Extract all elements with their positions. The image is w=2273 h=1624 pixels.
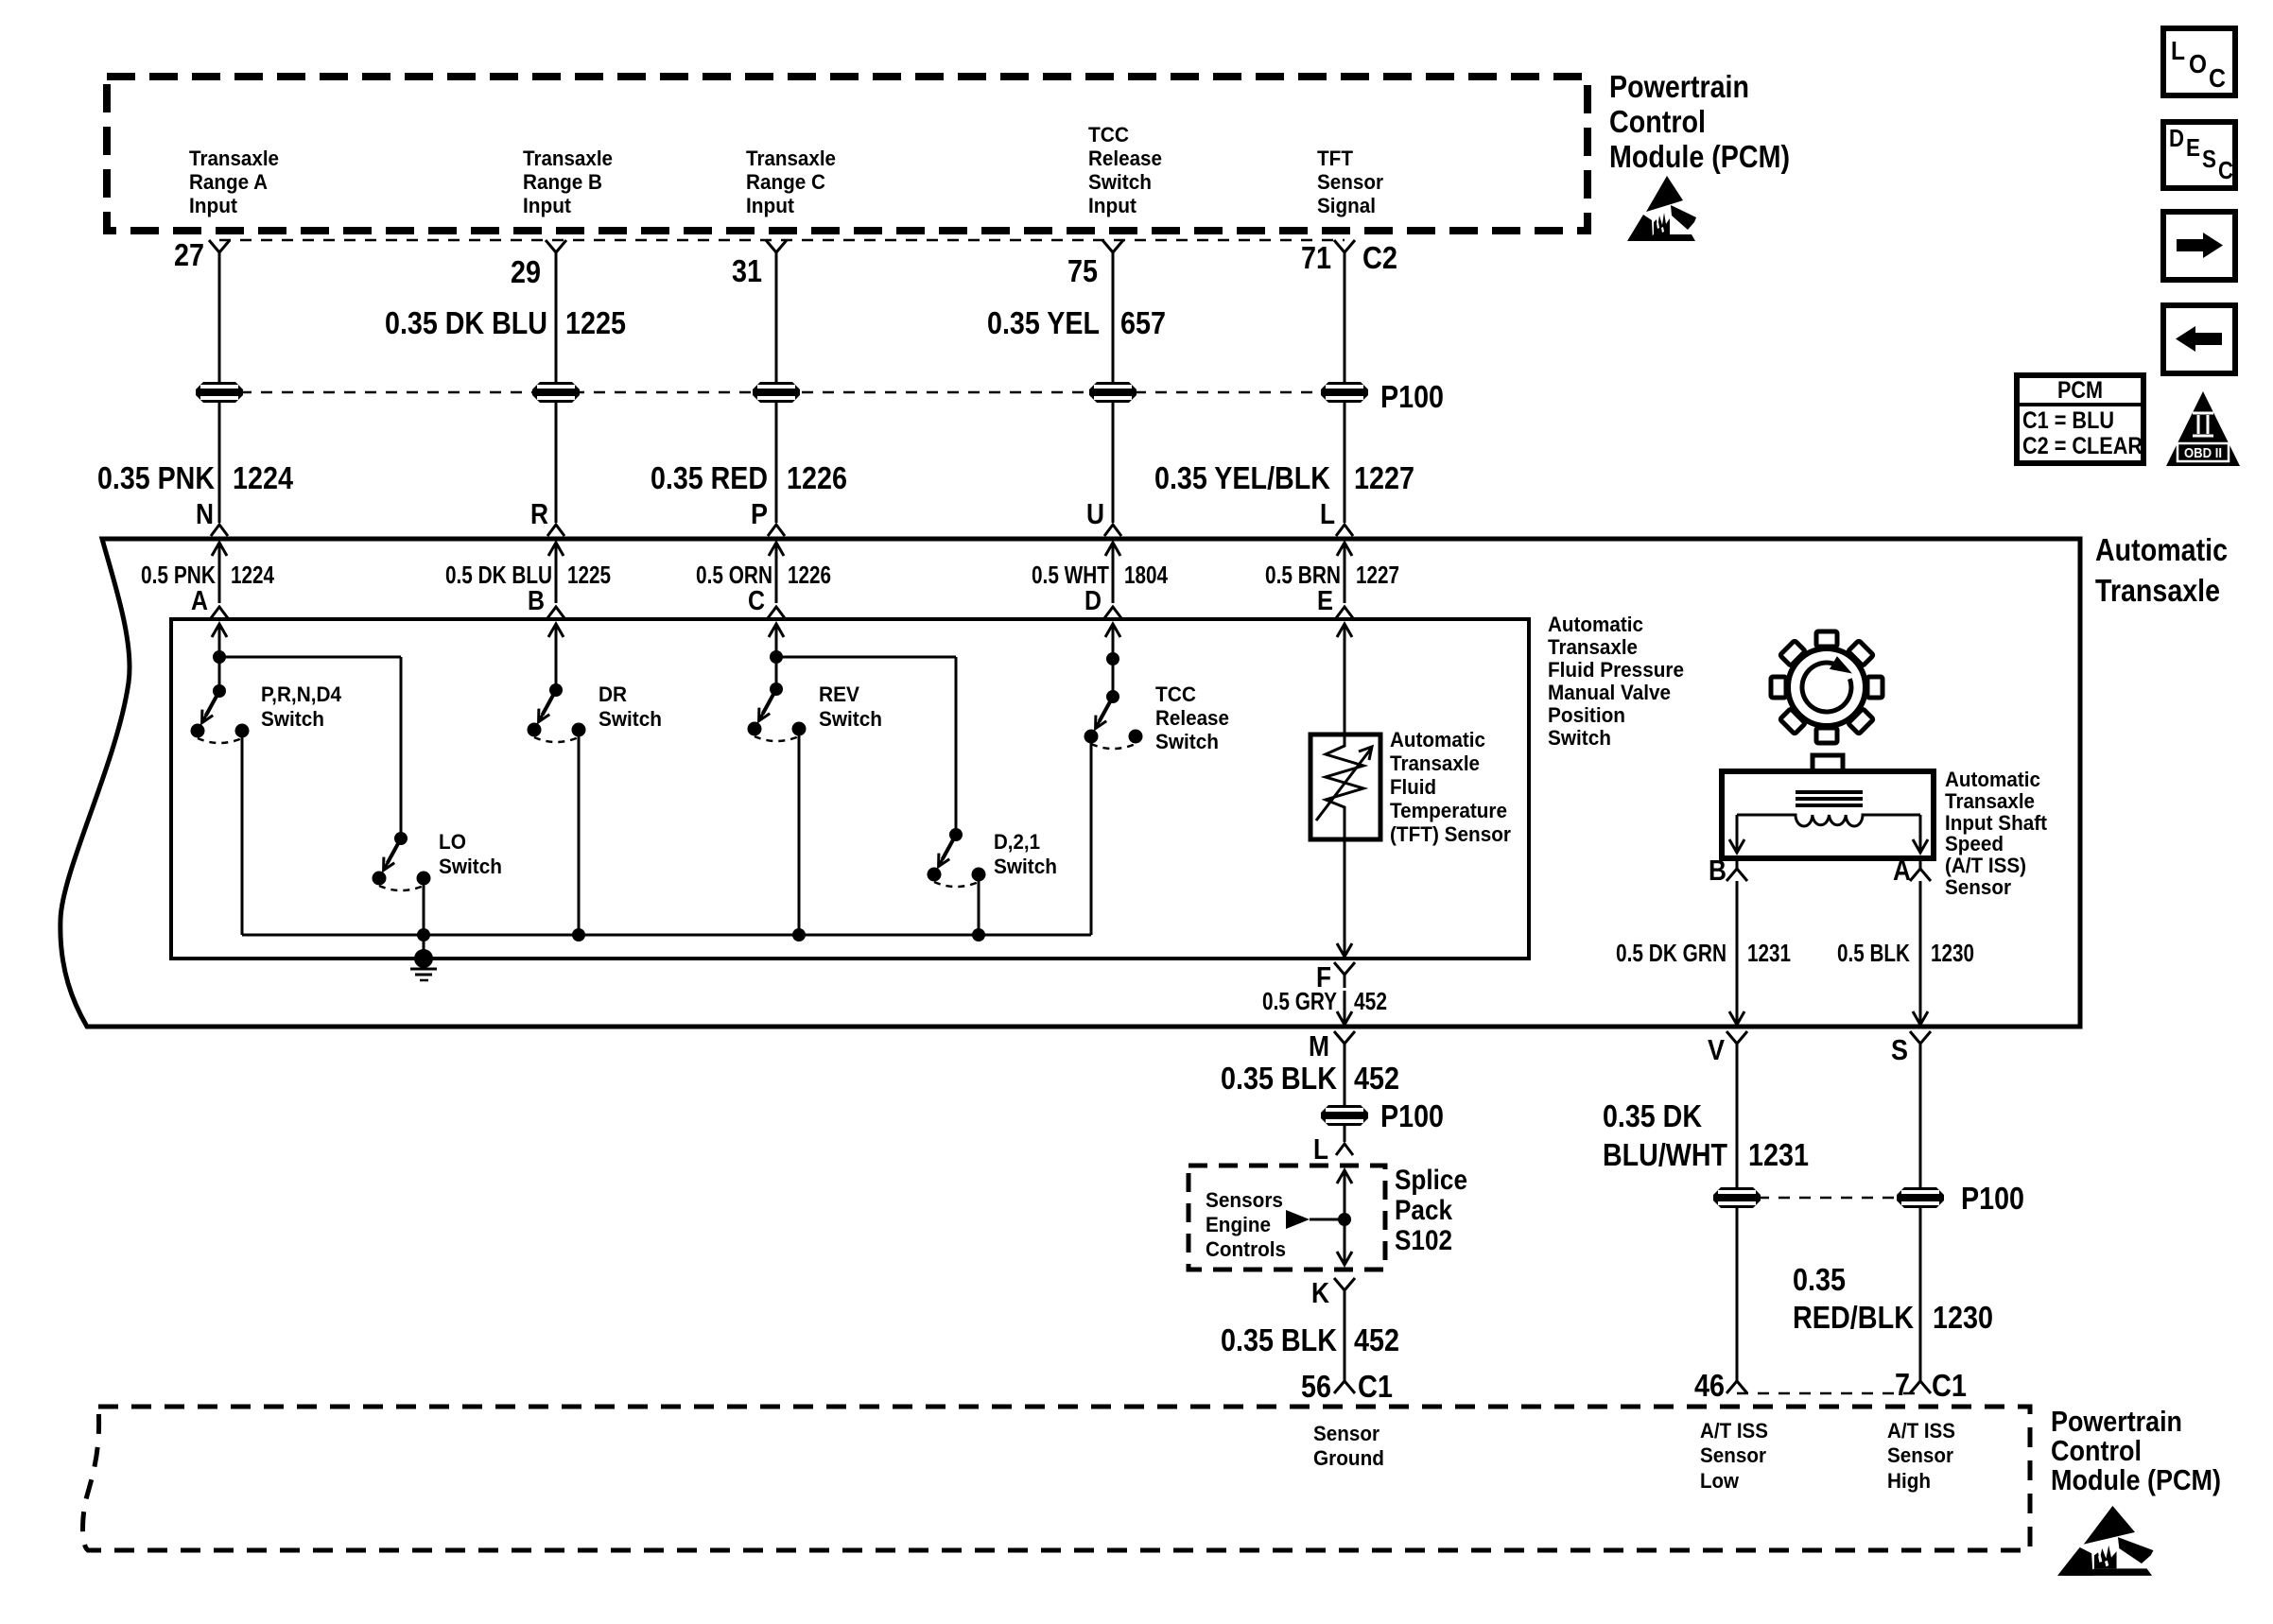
terminal letter N — [196, 497, 214, 530]
svg-text:A/T ISS: A/T ISS — [1700, 1419, 1768, 1443]
switch TCC Release — [1084, 682, 1230, 753]
svg-text:Transaxle: Transaxle — [1945, 789, 2035, 813]
wire A arrow into switch box — [212, 624, 227, 657]
svg-text:0.35 DK BLU: 0.35 DK BLU — [385, 305, 547, 340]
svg-text:P,R,N,D4: P,R,N,D4 — [261, 682, 342, 706]
svg-text:Splice: Splice — [1395, 1165, 1467, 1196]
terminal B caret at switch box — [547, 607, 564, 618]
svg-text:Module (PCM): Module (PCM) — [1609, 139, 1790, 174]
svg-text:TCC: TCC — [1088, 123, 1129, 147]
junction dot DR/bus — [572, 928, 585, 942]
pin fork at PCM pin 71 — [1334, 240, 1355, 266]
svg-text:Sensor: Sensor — [1700, 1443, 1766, 1467]
wire V from P100 fork — [1736, 1044, 1739, 1187]
connector P100 dashed link (V-S) — [1737, 1197, 1920, 1200]
wire TCC output down — [1090, 736, 1093, 935]
pin number 56 — [1301, 1369, 1331, 1404]
connector C1 dashed pin line (bottom) — [1737, 1392, 1920, 1395]
svg-text:D: D — [2169, 124, 2184, 152]
junction dot on wire D — [1106, 652, 1119, 665]
connector label P100 (top) — [1380, 379, 1444, 414]
svg-text:Sensor: Sensor — [1945, 875, 2011, 899]
label Sensor Ground — [1313, 1422, 1384, 1470]
wire B arrow into switch box — [548, 624, 564, 690]
svg-text:Sensor: Sensor — [1887, 1443, 1953, 1467]
svg-text:0.5 PNK: 0.5 PNK — [141, 561, 216, 589]
svg-text:0.35 RED: 0.35 RED — [651, 460, 768, 495]
wire C arrow into switch box — [769, 624, 784, 657]
A/T ISS sensor tab — [1813, 755, 1843, 771]
A/T ISS sensor body — [1722, 771, 1934, 858]
svg-text:1230: 1230 — [1931, 939, 1974, 967]
pin fork at PCM pin 31 — [766, 240, 787, 266]
wire C from PCM to P100 — [775, 266, 778, 382]
wire D entering transaxle (arrow) — [1105, 543, 1120, 603]
svg-text:C1: C1 — [1358, 1369, 1393, 1404]
svg-text:Release: Release — [1088, 147, 1162, 170]
DESC reference box — [2163, 122, 2235, 188]
wire V to PCM — [1736, 1208, 1739, 1369]
wire DR output — [578, 730, 581, 935]
svg-text:L: L — [1320, 497, 1335, 530]
splice pack S102 dashed box — [1189, 1166, 1385, 1270]
wire B from P100 to transaxle — [555, 403, 558, 523]
wire label 0.5 ORN 1226 — [696, 561, 831, 589]
switch P,R,N,D4 — [191, 682, 342, 743]
label A/T ISS Sensor Low — [1700, 1419, 1768, 1493]
wire label 0.35 BLK 452 (upper) — [1221, 1061, 1399, 1096]
svg-text:Temperature: Temperature — [1390, 799, 1507, 822]
label Splice Pack S102 — [1395, 1165, 1467, 1256]
wire label 0.35 BLK 452 (lower) — [1221, 1322, 1399, 1357]
terminal letter L — [1320, 497, 1335, 530]
terminal F fork — [1334, 962, 1355, 988]
svg-text:OBD II: OBD II — [2184, 445, 2222, 461]
label TFT Sensor Signal — [1317, 147, 1383, 217]
svg-text:Module (PCM): Module (PCM) — [2051, 1463, 2221, 1496]
TFT thermistor element — [1316, 734, 1372, 839]
svg-text:Transaxle: Transaxle — [1390, 752, 1480, 775]
svg-text:Automatic: Automatic — [1945, 768, 2040, 791]
label Transaxle Range A Input — [189, 147, 279, 217]
svg-text:56: 56 — [1301, 1369, 1331, 1404]
terminal letter A (ISS) — [1893, 854, 1911, 887]
connector P100 pass-through on wire E — [1321, 382, 1368, 403]
wire label 0.35 RED 1226 — [651, 460, 847, 495]
svg-text:1231: 1231 — [1748, 1137, 1809, 1172]
pin number 27 — [174, 237, 204, 272]
svg-text:1227: 1227 — [1356, 561, 1399, 589]
svg-text:D,2,1: D,2,1 — [994, 830, 1040, 854]
terminal K fork — [1334, 1278, 1355, 1304]
svg-text:Input: Input — [1088, 194, 1137, 217]
svg-text:Pack: Pack — [1395, 1195, 1452, 1226]
svg-text:Position: Position — [1548, 703, 1625, 727]
A/T ISS lead B — [1729, 815, 1744, 853]
wire D arrow into switch box — [1105, 624, 1120, 659]
ESD static-sensitive icon (top PCM) — [1627, 176, 1696, 241]
wire label 0.35 YEL 657 — [987, 305, 1166, 340]
PCM connector legend table — [2017, 375, 2143, 463]
svg-text:C1 = BLU: C1 = BLU — [2022, 407, 2114, 434]
junction dot branch C — [770, 650, 783, 664]
connector label C1 (56) — [1358, 1369, 1393, 1404]
svg-text:C: C — [2209, 63, 2226, 93]
svg-text:C: C — [748, 586, 765, 616]
svg-text:Manual Valve: Manual Valve — [1548, 681, 1671, 704]
svg-text:Ground: Ground — [1313, 1446, 1384, 1470]
terminal A caret at switch box — [211, 607, 228, 618]
svg-text:REV: REV — [819, 682, 859, 706]
label Automatic Transaxle Fluid Pressure Manual Valve Position Switch — [1548, 613, 1684, 750]
svg-text:BLU/WHT: BLU/WHT — [1603, 1137, 1727, 1172]
svg-text:S: S — [1891, 1033, 1908, 1066]
label Powertrain Control Module (PCM) top — [1609, 69, 1790, 174]
wire label 0.5 BLK 1230 — [1837, 939, 1974, 967]
svg-text:Automatic: Automatic — [1390, 728, 1485, 752]
wire D from PCM to P100 — [1112, 266, 1115, 382]
svg-text:P100: P100 — [1380, 379, 1444, 414]
terminal fork A — [1910, 855, 1931, 881]
connector label P100 (right) — [1961, 1181, 2024, 1216]
terminal letter D — [1084, 586, 1102, 616]
terminal letter K — [1311, 1276, 1330, 1309]
svg-text:S102: S102 — [1395, 1225, 1452, 1256]
svg-text:Speed: Speed — [1945, 832, 2004, 855]
svg-text:E: E — [1317, 586, 1333, 616]
label Sensors Engine Controls — [1206, 1188, 1286, 1261]
terminal E caret at switch box — [1336, 607, 1353, 618]
svg-text:452: 452 — [1354, 1061, 1399, 1096]
wire A from PCM to P100 — [218, 266, 221, 382]
svg-text:0.5 GRY: 0.5 GRY — [1262, 987, 1337, 1015]
terminal L caret at splice — [1336, 1144, 1353, 1155]
connector P100 on wire S — [1897, 1187, 1944, 1208]
connector P100 dashed link line — [219, 391, 1345, 394]
wire label 0.5 PNK 1224 — [141, 561, 274, 589]
svg-text:P100: P100 — [1380, 1098, 1444, 1133]
svg-text:0.5 WHT: 0.5 WHT — [1032, 561, 1109, 589]
svg-text:Low: Low — [1700, 1469, 1740, 1493]
wire D from P100 to transaxle — [1112, 403, 1115, 523]
svg-text:Transaxle: Transaxle — [523, 147, 613, 170]
terminal letter U — [1086, 497, 1104, 530]
svg-text:0.5 BLK: 0.5 BLK — [1837, 939, 1910, 967]
svg-text:E: E — [2186, 133, 2200, 162]
Automatic Transaxle enclosure box — [61, 539, 2080, 1027]
junction dot LO/bus — [417, 928, 430, 942]
terminal caret at transaxle case — [1104, 525, 1121, 536]
svg-text:Powertrain: Powertrain — [2051, 1405, 2182, 1438]
wire D to TCC pivot — [1112, 659, 1115, 697]
svg-text:(A/T ISS): (A/T ISS) — [1945, 854, 2026, 877]
svg-text:1227: 1227 — [1354, 460, 1414, 495]
wire L from P100 — [1344, 1126, 1346, 1142]
svg-text:27: 27 — [174, 237, 204, 272]
connector P100 on sensor ground wire — [1321, 1105, 1368, 1126]
terminal letter F — [1316, 960, 1331, 993]
svg-text:452: 452 — [1354, 1322, 1399, 1357]
svg-text:Range A: Range A — [189, 170, 268, 194]
svg-text:Switch: Switch — [819, 707, 882, 731]
svg-text:D: D — [1084, 586, 1102, 616]
terminal C caret at switch box — [768, 607, 785, 618]
svg-text:High: High — [1887, 1469, 1931, 1493]
connector label C1 (7) — [1932, 1368, 1967, 1403]
wire C from P100 to transaxle — [775, 403, 778, 523]
svg-text:Sensor: Sensor — [1317, 170, 1383, 194]
wire S from P100 fork — [1919, 1044, 1922, 1187]
wire label 0.5 GRY 452 — [1262, 987, 1387, 1015]
svg-text:1224: 1224 — [231, 561, 274, 589]
wire A to transaxle case — [1913, 881, 1928, 1025]
svg-text:L: L — [1313, 1132, 1328, 1166]
svg-text:Input: Input — [189, 194, 238, 217]
svg-text:75: 75 — [1067, 253, 1098, 288]
svg-text:Control: Control — [2051, 1434, 2142, 1467]
svg-text:0.5 DK BLU: 0.5 DK BLU — [445, 561, 552, 589]
wire label 0.35 DK BLU 1225 — [385, 305, 626, 340]
label Automatic Transaxle (title) — [2095, 532, 2228, 608]
svg-text:DR: DR — [599, 682, 627, 706]
PCM module box (bottom, dashed) — [83, 1407, 2030, 1550]
label Transaxle Range C Input — [746, 147, 836, 217]
wire A from P100 to transaxle — [218, 403, 221, 523]
svg-text:TFT: TFT — [1317, 147, 1354, 170]
svg-text:1226: 1226 — [787, 460, 847, 495]
svg-text:B: B — [1709, 854, 1726, 887]
svg-text:0.35 YEL/BLK: 0.35 YEL/BLK — [1154, 460, 1330, 495]
terminal S fork — [1910, 1031, 1931, 1057]
terminal letter L (splice) — [1313, 1132, 1328, 1166]
PCM module box (top, dashed) — [107, 77, 1588, 231]
svg-text:Switch: Switch — [599, 707, 662, 731]
svg-text:M: M — [1309, 1029, 1329, 1063]
connector P100 pass-through on wire D — [1089, 382, 1136, 403]
terminal letter B (ISS) — [1709, 854, 1726, 887]
svg-text:Transaxle: Transaxle — [2095, 573, 2220, 608]
wire LO output to ground bus — [423, 878, 425, 935]
wire label 0.35 PNK 1224 — [97, 460, 294, 495]
pin number 46 — [1694, 1368, 1725, 1403]
svg-text:Fluid: Fluid — [1390, 775, 1436, 799]
svg-text:Transaxle: Transaxle — [746, 147, 836, 170]
svg-text:29: 29 — [511, 254, 541, 289]
svg-text:31: 31 — [732, 253, 762, 288]
svg-text:Transaxle: Transaxle — [189, 147, 279, 170]
terminal fork pin 56 — [1334, 1368, 1355, 1393]
terminal caret at transaxle case — [1336, 525, 1353, 536]
gear icon (input shaft) — [1771, 631, 1883, 743]
terminal caret at transaxle case — [211, 525, 228, 536]
svg-text:46: 46 — [1694, 1368, 1725, 1403]
svg-text:L: L — [2171, 36, 2185, 65]
svg-text:1226: 1226 — [788, 561, 831, 589]
svg-text:1225: 1225 — [565, 305, 626, 340]
svg-text:452: 452 — [1354, 987, 1387, 1015]
terminal D caret at switch box — [1104, 607, 1121, 618]
terminal letter R — [530, 497, 548, 530]
connector P100 pass-through on wire B — [532, 382, 580, 403]
svg-text:Switch: Switch — [439, 855, 502, 878]
label A/T ISS Sensor High — [1887, 1419, 1955, 1493]
svg-text:PCM: PCM — [2057, 377, 2103, 404]
svg-text:C2: C2 — [1362, 240, 1397, 275]
TFT sensor box — [1310, 734, 1380, 839]
wire E to switch box bottom — [1337, 839, 1352, 957]
terminal caret at transaxle case — [547, 525, 564, 536]
svg-text:0.35 BLK: 0.35 BLK — [1221, 1061, 1337, 1096]
wire label 0.35 RED/BLK 1230 — [1793, 1262, 1993, 1335]
forward arrow box — [2163, 212, 2235, 280]
terminal caret at transaxle case — [768, 525, 785, 536]
wire B entering transaxle (arrow) — [548, 543, 564, 603]
svg-text:TCC: TCC — [1155, 682, 1196, 706]
wire A entering transaxle (arrow) — [212, 543, 227, 603]
wire E inside switch box — [1337, 624, 1352, 734]
svg-text:Sensor: Sensor — [1313, 1422, 1379, 1445]
terminal fork pin 46 — [1726, 1368, 1747, 1393]
svg-text:0.35 PNK: 0.35 PNK — [97, 460, 215, 495]
svg-text:1230: 1230 — [1933, 1300, 1993, 1335]
switch REV — [748, 682, 883, 741]
terminal letter B — [528, 586, 545, 616]
svg-text:1224: 1224 — [233, 460, 294, 495]
svg-text:Signal: Signal — [1317, 194, 1376, 217]
terminal letter C — [748, 586, 765, 616]
terminal fork pin 7 — [1910, 1368, 1931, 1393]
svg-text:(TFT) Sensor: (TFT) Sensor — [1390, 822, 1511, 846]
svg-text:A: A — [191, 586, 208, 616]
svg-text:N: N — [196, 497, 214, 530]
svg-text:Release: Release — [1155, 706, 1229, 730]
wire label 0.35 YEL/BLK 1227 — [1154, 460, 1414, 495]
A/T ISS pickup coil — [1737, 815, 1920, 826]
svg-text:LO: LO — [439, 830, 466, 854]
splice junction dot S102 — [1338, 1213, 1351, 1226]
wire E from P100 to transaxle — [1344, 403, 1346, 523]
wire P,R,N,D4 output — [241, 731, 244, 935]
svg-text:Switch: Switch — [261, 707, 324, 731]
svg-text:Automatic: Automatic — [2095, 532, 2228, 567]
terminal letter P — [751, 497, 768, 530]
wire E from PCM to P100 — [1344, 266, 1346, 382]
ground symbol G101 — [410, 949, 437, 980]
wire S to PCM — [1919, 1208, 1922, 1369]
svg-text:R: R — [530, 497, 548, 530]
label TCC Release Switch Input — [1088, 123, 1162, 217]
svg-text:Switch: Switch — [1548, 726, 1611, 750]
pin number 31 — [732, 253, 762, 288]
svg-text:Input: Input — [523, 194, 572, 217]
terminal letter M — [1309, 1029, 1329, 1063]
wire label 0.5 WHT 1804 — [1032, 561, 1168, 589]
connector P100 pass-through on wire A — [196, 382, 243, 403]
svg-text:0.5 ORN: 0.5 ORN — [696, 561, 772, 589]
back arrow box — [2163, 305, 2235, 373]
pin number 71 — [1301, 240, 1331, 275]
LOC reference box — [2163, 28, 2235, 95]
wire E entering transaxle (arrow) — [1337, 543, 1352, 603]
svg-text:0.35 DK: 0.35 DK — [1603, 1098, 1702, 1133]
wire branch C to D,2,1 switch — [776, 657, 956, 835]
svg-text:0.5 DK GRN: 0.5 DK GRN — [1616, 939, 1726, 967]
wire D,2,1 output — [978, 874, 980, 935]
ESD static-sensitive icon (bottom PCM) — [2057, 1506, 2153, 1576]
label Transaxle Range B Input — [523, 147, 613, 217]
switch LO — [373, 830, 503, 890]
wire K to PCM — [1344, 1304, 1346, 1369]
wire F to transaxle case — [1337, 991, 1352, 1025]
svg-text:U: U — [1086, 497, 1104, 530]
svg-text:Switch: Switch — [1088, 170, 1152, 194]
junction dot D21/bus — [972, 928, 985, 942]
svg-text:Range B: Range B — [523, 170, 602, 194]
svg-text:0.35 YEL: 0.35 YEL — [987, 305, 1100, 340]
terminal letter S — [1891, 1033, 1908, 1066]
pin number 75 — [1067, 253, 1098, 288]
wire LO junction to ground — [423, 935, 425, 959]
wire branch A to LO switch — [219, 657, 401, 838]
sensors engine controls feed arrow — [1286, 1210, 1345, 1229]
wire C entering transaxle (arrow) — [769, 543, 784, 603]
wire label 0.5 DK GRN 1231 — [1616, 939, 1791, 967]
wire label 0.5 DK BLU 1225 — [445, 561, 611, 589]
svg-text:P100: P100 — [1961, 1181, 2024, 1216]
junction dot REV/bus — [792, 928, 806, 942]
connector label C2 — [1362, 240, 1397, 275]
svg-text:A/T ISS: A/T ISS — [1887, 1419, 1955, 1443]
wire A branch to pivot — [218, 657, 221, 691]
wire label 0.5 BRN 1227 — [1265, 561, 1399, 589]
svg-text:1804: 1804 — [1124, 561, 1168, 589]
connector label P100 (middle) — [1380, 1098, 1444, 1133]
svg-text:7: 7 — [1895, 1367, 1910, 1402]
svg-text:1231: 1231 — [1747, 939, 1791, 967]
wire REV output — [798, 729, 801, 935]
label Automatic Transaxle Input Shaft Speed (A/T ISS) Sensor — [1945, 768, 2048, 899]
connector C2 dashed pin line (top) — [219, 239, 1345, 242]
svg-text:Sensors: Sensors — [1206, 1188, 1283, 1212]
pin fork at PCM pin 27 — [209, 240, 230, 266]
svg-text:0.35: 0.35 — [1793, 1262, 1846, 1297]
A/T ISS pickup core — [1796, 792, 1863, 805]
svg-text:C1: C1 — [1932, 1368, 1967, 1403]
svg-text:A: A — [1893, 854, 1911, 887]
terminal letter E — [1317, 586, 1333, 616]
wire M to P100 — [1344, 1057, 1346, 1105]
svg-text:Switch: Switch — [994, 855, 1057, 878]
svg-text:Controls: Controls — [1206, 1237, 1286, 1261]
svg-text:Control: Control — [1609, 104, 1706, 139]
connector P100 on wire V — [1713, 1187, 1761, 1208]
svg-text:O: O — [2189, 49, 2207, 78]
svg-text:71: 71 — [1301, 240, 1331, 275]
label Automatic Transaxle Fluid Temperature (TFT) Sensor — [1390, 728, 1511, 846]
svg-text:Range C: Range C — [746, 170, 825, 194]
svg-text:P: P — [751, 497, 768, 530]
svg-text:1225: 1225 — [567, 561, 611, 589]
switch DR — [528, 682, 663, 742]
terminal V fork — [1726, 1031, 1747, 1057]
pin number 29 — [511, 254, 541, 289]
svg-text:Transaxle: Transaxle — [1548, 635, 1638, 659]
pin fork at PCM pin 75 — [1102, 240, 1123, 266]
svg-text:Fluid Pressure: Fluid Pressure — [1548, 658, 1684, 682]
terminal letter A — [191, 586, 208, 616]
pin fork at PCM pin 29 — [546, 240, 566, 266]
terminal letter V — [1708, 1033, 1725, 1066]
